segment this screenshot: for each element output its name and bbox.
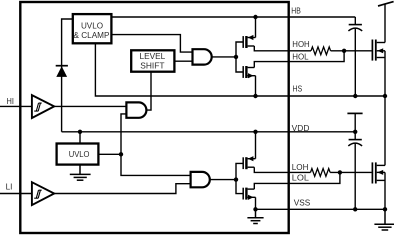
node U2 output to gates (234, 55, 238, 59)
node VSS / C2 (353, 207, 357, 211)
node HS rail / Q2 source (253, 94, 257, 98)
wire VSS rail (256, 208, 386, 210)
wire HB rail to Q1 source (255, 17, 257, 38)
svg-text:VSS: VSS (294, 199, 311, 208)
wire UVLO&CLAMP second output to high-side AND top input (111, 35, 192, 53)
resistor Rg low side (gate resistor) (311, 169, 331, 177)
node HS rail / C1 (353, 94, 357, 98)
wire AND U1 output up to LEVEL SHIFT (146, 72, 151, 110)
wire UVLO&CLAMP bottom lead to HS rail (95, 43, 385, 96)
wire AND U2 output to driver pair (212, 56, 236, 58)
wire VDD rail to Q3 source (255, 132, 257, 159)
node HOH/HOL tie (342, 49, 346, 53)
capacitor C1 bootstrap (HB to HS) (348, 25, 362, 96)
svg-text:LOH: LOH (292, 163, 309, 172)
svg-text:LOL: LOL (292, 173, 310, 182)
wire Q2 source down to HS rail (255, 76, 257, 96)
wire Q4 drain to LOL line (254, 172, 340, 189)
wire HOH after resistor to external FET gate (331, 50, 372, 52)
and gate U3 (low side) (191, 172, 210, 187)
svg-text:HS: HS (293, 85, 303, 94)
ground (internal, VSS) (247, 209, 263, 223)
svg-text:UVLO: UVLO (69, 149, 90, 159)
schmitt buffer LI (32, 182, 54, 205)
ground (external, power return) (374, 209, 394, 230)
wire HS node down to external FET M2 drain (384, 96, 386, 165)
svg-text:LEVEL: LEVEL (140, 51, 166, 61)
wire to high PMOS gate (236, 42, 243, 57)
resistor Rg high side (gate resistor) (311, 47, 331, 55)
wire to low NMOS gate (236, 180, 243, 194)
schmitt buffer HI (32, 95, 54, 118)
capacitor C2 VDD bypass (348, 132, 362, 210)
node HB rail tap (253, 15, 257, 19)
transistor Q2 internal NMOS (high side) (243, 66, 255, 78)
wire HB cap lead down from rail corner (354, 17, 356, 25)
wire Q3 drain to LOH line (254, 167, 310, 172)
wire AND U3 output to driver pair (210, 179, 236, 181)
wire HI schmitt output to AND gate (54, 105, 126, 107)
svg-text:HOH: HOH (292, 40, 310, 49)
transistor Q4 internal NMOS (low side) (243, 188, 255, 200)
node LOH/LOL tie (338, 170, 342, 174)
block UVLO & CLAMP (73, 14, 112, 43)
wire UVLO&CLAMP to HB rail (111, 16, 355, 18)
wire supply to external FET M1 drain (384, 4, 386, 42)
node UVLO output junction (119, 152, 123, 156)
wire M1 source/body down to HS node (384, 51, 386, 96)
wire to low PMOS gate (236, 163, 243, 179)
svg-text:HOL: HOL (292, 52, 309, 61)
node VDD / cap / supply (353, 130, 357, 134)
svg-text:SHIFT: SHIFT (140, 60, 164, 70)
node HS / M1 source (383, 94, 387, 98)
wire Q1 drain to HOH line (254, 46, 311, 51)
node VDD rail / UVLO stub (78, 130, 82, 134)
node VDD rail tap (253, 130, 257, 134)
wire UVLO output to vertical net (98, 153, 121, 155)
wire LI input (0, 193, 32, 195)
svg-text:HB: HB (291, 6, 301, 15)
block UVLO (57, 144, 99, 165)
transistor M2 external NMOS (low side) (372, 162, 385, 183)
node VSS / M2 source (383, 207, 387, 211)
wire VDD rail (62, 131, 356, 133)
wire LEVEL SHIFT output to high-side AND bottom input (174, 60, 192, 62)
ground (under UVLO block) (70, 165, 91, 181)
power rail VDD (T bar) (347, 112, 362, 114)
svg-text:HI: HI (7, 97, 14, 106)
transistor M1 external NMOS (high side) (372, 40, 385, 61)
diode (bootstrap, anode to VDD rail) (56, 66, 68, 77)
transistor Q3 internal PMOS (low side) (243, 156, 255, 169)
transistor Q1 internal PMOS (high side) (243, 35, 255, 48)
IC boundary (20, 2, 288, 233)
node VSS rail / Q4 source (253, 207, 257, 211)
wire UVLO&CLAMP left lead with bootstrap diode down to VDD rail (62, 19, 73, 132)
power rail (slanted bar, high-side drain supply) (378, 2, 394, 6)
wire UVLO top stub from VDD rail (79, 132, 81, 144)
wire Q2 drain to HOL line (254, 51, 344, 68)
svg-text:LI: LI (6, 183, 13, 192)
and gate U1 (HI input gating) (126, 102, 146, 117)
wire HI input (0, 105, 32, 107)
wire to high NMOS gate (236, 57, 243, 72)
node U3 output to gates (234, 177, 238, 181)
wire M2 source/body down to VSS (384, 172, 386, 209)
wire AND U1 bottom input from UVLO output (121, 114, 191, 175)
wire LI schmitt output to low-side AND gate (54, 184, 190, 194)
and gate U2 (high side) (193, 49, 212, 64)
wire VDD supply stem (354, 113, 356, 131)
svg-text:UVLO: UVLO (81, 20, 104, 30)
svg-text:& CLAMP: & CLAMP (74, 30, 110, 40)
wire LOH after resistor to external FET gate (330, 171, 372, 173)
block LEVEL SHIFT (131, 50, 174, 71)
wire Q4 source down to VSS rail (255, 197, 257, 209)
